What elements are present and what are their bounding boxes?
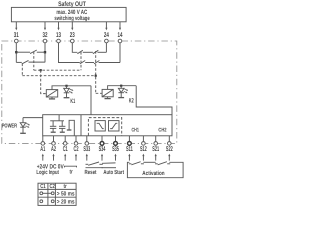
arrow S11 [128,154,130,161]
relay coil K1 [46,90,57,97]
svg-text:13: 13 [56,32,61,39]
capacitor C-a [50,121,56,132]
activation switch S21-S22 [155,162,170,165]
up arrows under bottom terminals [42,154,171,161]
svg-text:CH1: CH1 [132,127,139,133]
svg-text:C1: C1 [63,146,68,153]
wire stem S11 [128,136,130,142]
svg-text:Auto Start: Auto Start [103,169,124,176]
wire 32 stem [44,43,46,63]
wire capacitor rail [50,120,64,122]
wire K1 rail drop [90,86,92,115]
svg-text:S21: S21 [152,146,159,153]
mechanical linkage rail 1 (K1) [34,69,81,71]
wire K2 coil bottom [105,97,111,99]
inductor / winding element [67,120,75,136]
node linkage K1 [40,69,42,71]
svg-text:POWER: POWER [2,123,18,130]
terminal S21 [154,142,158,146]
logic box [43,115,172,136]
table C1 C2 tr [38,183,76,205]
node junction 31 [15,51,17,53]
svg-text:tr: tr [70,170,74,176]
arrow S34 [101,154,103,161]
capacitor C-b [59,121,65,132]
logic box divider [80,115,82,136]
arrow C2 [75,154,77,161]
mechanical linkage left NO blades riser [80,52,82,70]
node linkage rail2 right [95,75,97,77]
mechanical linkage rail 2 (K2) [22,75,95,77]
wire POWER LED to logic box [23,117,43,119]
wire stem S12 [142,136,144,142]
wire stem S22 [168,136,170,142]
svg-text:switching voltage: switching voltage [54,15,90,22]
terminal 32 [43,39,47,43]
svg-text:K1: K1 [70,98,75,105]
NC contact upper 31-32 (K1) [16,50,45,54]
top box max 240 V AC [11,7,126,21]
terminal 13 [57,39,61,43]
wire stem A2 [53,136,55,142]
wire stem C2 [75,136,77,142]
bracket Auto Start [102,167,117,169]
LED K1 [64,86,74,98]
arrow to terminal 32 [44,22,46,31]
reset pushbutton between S33 S34 [86,162,103,165]
svg-text:CH2: CH2 [158,127,166,133]
svg-text:S22: S22 [166,146,173,153]
arrow C1 [64,154,66,161]
arrow to terminal 23 [71,22,73,31]
wire K1 coil top [52,86,91,90]
terminal A2 [52,142,56,146]
svg-text:S34: S34 [99,146,106,153]
wire capacitor rail riser [58,115,60,121]
mechanical linkage K2 drop [96,92,102,94]
wire stem C1 [64,136,66,142]
wire 24 stem [105,43,107,53]
svg-text:S33: S33 [83,146,90,153]
svg-text:tr: tr [64,184,68,190]
wire stem A1 [42,136,44,142]
terminal 31 [14,39,18,43]
mechanical linkage right NO blades riser [95,51,97,93]
wire relay feed to logic box [136,86,172,115]
arrow A1 [42,154,44,161]
wire 23 stem and elbow [72,43,77,53]
wire stem S33 [86,136,88,142]
NO contact upper right (23-24 path) [93,50,107,53]
arrow to terminal 24 [105,22,107,31]
svg-text:S35: S35 [112,146,119,153]
svg-text:> 50 ms: > 50 ms [57,191,75,198]
activation box [127,162,183,177]
arrow to terminal 14 [119,22,121,31]
wire 13 stem and elbow [59,43,80,63]
terminal 24 [105,39,109,43]
terminal A1 [41,142,45,146]
table row1 closed link symbol [40,192,54,195]
terminal S33 [85,142,89,146]
wire K2 coil top [108,86,137,90]
NO contact upper left (23-24 path) [77,50,93,53]
wire 14 stem [119,43,121,63]
svg-text:C1: C1 [40,183,46,190]
LED K2 [118,86,128,98]
relay coil K2 [102,89,113,96]
node K1 LED junction [65,85,67,87]
wire stem S34 [101,136,103,142]
svg-text:Reset: Reset [85,169,97,176]
svg-text:A2: A2 [51,146,56,153]
arrow S35 [114,154,116,161]
svg-text:24: 24 [104,32,109,39]
terminal S34 bold [100,142,104,146]
bracket tr over C1 C2 [65,166,77,167]
arrow S21 [155,154,157,161]
terminal C1 [63,142,67,146]
svg-text:S11: S11 [126,146,133,153]
LED POWER [20,118,30,134]
auto start link between S34 S35 [102,162,116,164]
edge detector CH1 (falling) [95,121,105,131]
terminal 14 [118,39,122,43]
module boundary dash-dot border [2,41,177,143]
svg-text:31: 31 [14,32,19,39]
svg-text:C2: C2 [74,146,79,153]
svg-text:K2: K2 [129,98,134,105]
svg-text:23: 23 [70,32,75,39]
NO contact lower right (13-14 path) [94,61,120,64]
svg-text:32: 32 [43,32,48,39]
mechanical linkage K1 drop [41,70,47,93]
terminal S22 [168,142,172,146]
dashed logic sub-box [88,118,121,136]
NO contact lower left (13-14 path) [80,61,94,64]
terminal S12 [142,142,146,146]
arrow to terminal 13 [57,22,59,31]
svg-text:A1: A1 [40,146,45,153]
bracket Reset [86,167,103,169]
svg-text:S12: S12 [140,146,147,153]
arrow A2 [52,154,54,161]
terminal S11 bold [127,142,131,146]
table row2 open symbol [40,200,54,203]
node junction 32 [44,51,46,53]
arrow S22 [168,154,170,161]
wire stem S21 [155,136,157,142]
svg-text:14: 14 [118,32,123,39]
svg-text:C2: C2 [50,183,56,190]
activation switch S11-S12 [129,162,144,165]
svg-text:Logic Input: Logic Input [36,169,59,176]
svg-text:> 20 ms: > 20 ms [57,199,75,206]
NC contact lower 31-32 (K2) [16,60,45,64]
arrow to terminal 31 [15,22,17,31]
wire 31 stem [15,43,17,63]
terminal S35 bold [114,142,118,146]
wire stem S35 [115,136,117,142]
arrow S12 [142,154,144,161]
mechanical linkage lower NC blade drop [21,64,23,76]
svg-text:Activation: Activation [142,170,165,177]
terminal C2 [74,142,78,146]
arrow S33 [86,154,88,161]
wire K1 coil bottom [49,97,55,99]
terminal 23 [71,39,75,43]
node K2 LED junction [120,85,122,87]
edge detector CH2 (rising) [109,121,120,131]
mechanical linkage upper NC blade drop [33,52,35,70]
